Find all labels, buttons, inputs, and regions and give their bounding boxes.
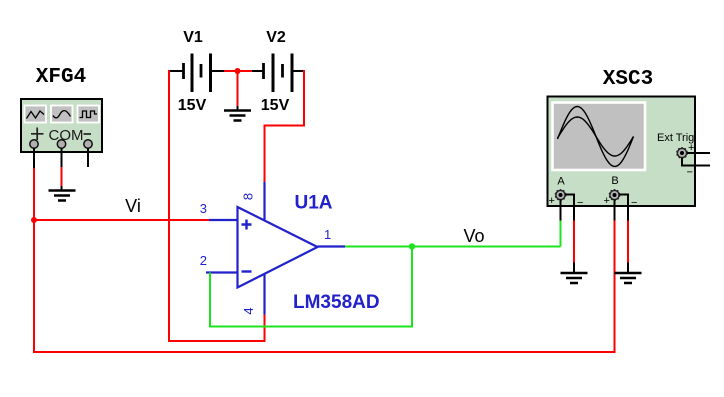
oscilloscope XSC3 — [548, 68, 696, 209]
svg-text:4: 4 — [241, 307, 256, 314]
label Vi — [125, 196, 141, 216]
svg-text:3: 3 — [200, 201, 207, 216]
battery V1 — [168, 29, 224, 114]
battery V2 — [252, 29, 304, 114]
svg-text:−: − — [631, 197, 637, 209]
svg-text:+: + — [604, 195, 610, 207]
svg-text:XFG4: XFG4 — [36, 66, 86, 89]
op-amp U1A LM358AD — [200, 182, 380, 315]
wire Vi (node to op-amp pin 3) — [34, 219, 209, 221]
wire V2 positive to op-amp pin 8 (V+ supply) — [264, 70, 306, 182]
ground (battery mid node) — [224, 111, 251, 121]
svg-text:B: B — [611, 175, 618, 187]
svg-text:−: − — [687, 167, 693, 179]
svg-text:U1A: U1A — [295, 193, 333, 214]
ground (XFG4 COM) — [49, 191, 76, 201]
svg-text:2: 2 — [200, 253, 207, 268]
wire scope channel B minus to ground — [619, 195, 629, 273]
node Vi junction — [31, 217, 37, 223]
svg-text:XSC3: XSC3 — [603, 68, 653, 91]
wire Vo (op-amp output to scope channel A) — [345, 246, 561, 248]
wire XFG4 plus terminal to node Vi — [33, 148, 35, 220]
ground (channel B) — [615, 273, 642, 283]
wire feedback (output node to op-amp pin 2) — [209, 247, 413, 328]
wire mid node to ground — [237, 71, 239, 110]
stub XFG4 minus terminal (unconnected) — [87, 148, 89, 167]
label Vo — [463, 226, 484, 246]
svg-text:LM358AD: LM358AD — [293, 292, 380, 313]
wire scope channel A plus to Vo wire — [560, 200, 562, 247]
svg-text:COM: COM — [49, 127, 84, 144]
svg-text:A: A — [557, 176, 565, 188]
svg-text:15V: 15V — [178, 97, 207, 114]
wire V1 positive to mid node (red) — [224, 70, 252, 72]
svg-text:V2: V2 — [266, 29, 286, 46]
wire Ext Trig plus stub — [687, 152, 710, 154]
wire V1 negative to op-amp pin 4 (V- supply) — [168, 70, 266, 342]
ground (channel A) — [561, 273, 588, 283]
wire XFG4 COM terminal to ground — [61, 148, 63, 190]
svg-text:Vo: Vo — [463, 226, 484, 246]
wire scope channel B plus to node Vi (bottom red wire) — [33, 200, 616, 354]
node between V1 and V2 — [235, 68, 241, 74]
svg-text:1: 1 — [324, 227, 331, 242]
wire Ext Trig minus stub — [682, 158, 710, 166]
node Vo junction — [409, 243, 415, 249]
svg-text:15V: 15V — [261, 97, 290, 114]
svg-text:+: + — [549, 195, 555, 207]
svg-text:8: 8 — [241, 193, 256, 200]
function generator XFG4 — [21, 66, 102, 152]
svg-text:−: − — [577, 197, 583, 209]
svg-text:Vi: Vi — [125, 196, 141, 216]
svg-text:V1: V1 — [183, 29, 203, 46]
wire scope channel A minus to ground — [565, 195, 575, 273]
